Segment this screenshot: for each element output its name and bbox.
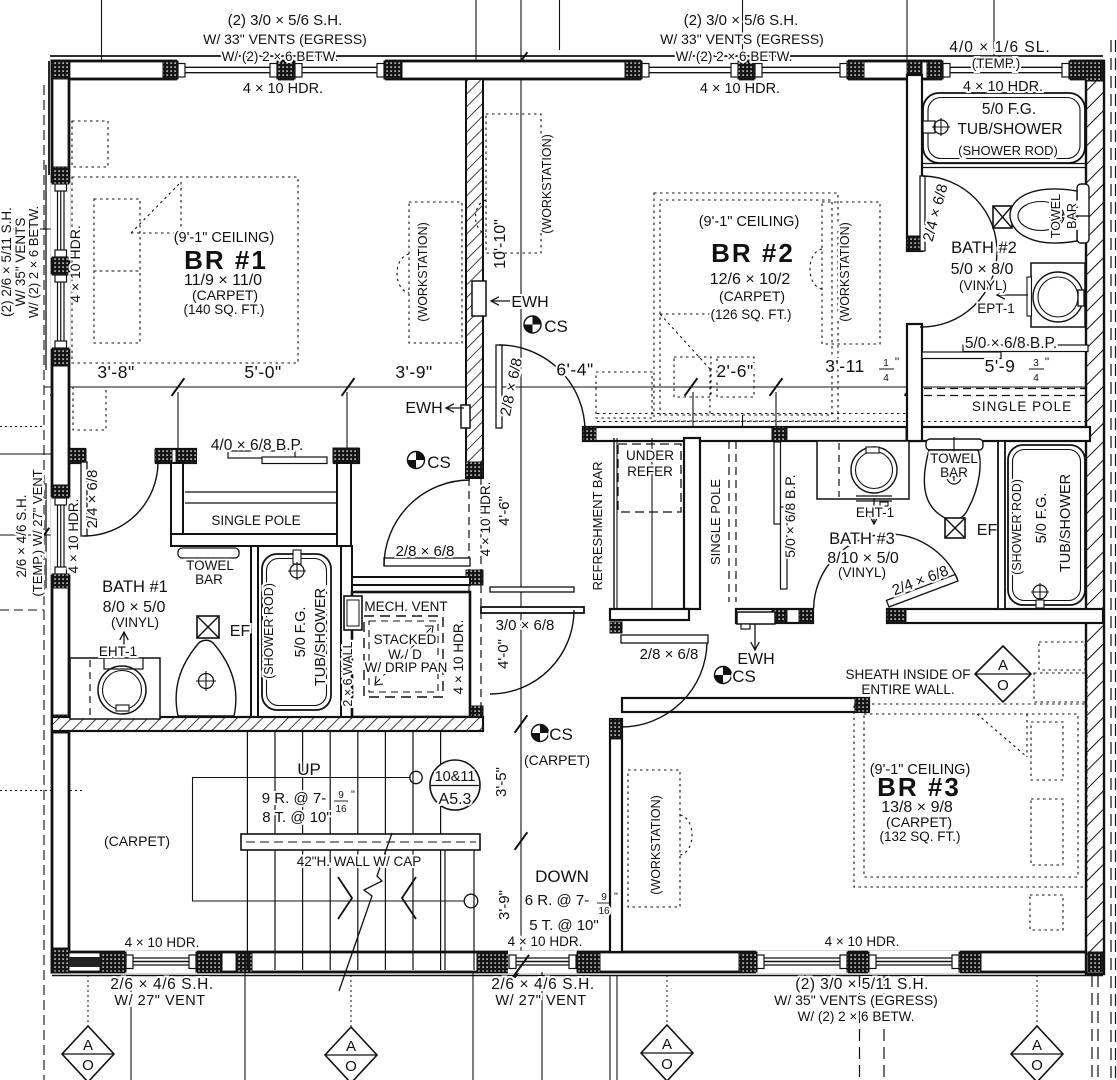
jamb block	[69, 449, 86, 463]
block below	[610, 622, 622, 633]
BR#1 closet south wall	[171, 534, 351, 546]
extension line x=693	[692, 392, 694, 428]
svg-text:(CARPET): (CARPET)	[886, 814, 952, 830]
svg-text:1: 1	[883, 358, 889, 369]
stair dimension line upper with donut	[192, 777, 410, 779]
main vertical dimension line x=521	[520, 0, 522, 969]
svg-text:(WORKSTATION): (WORKSTATION)	[540, 134, 554, 234]
svg-text:2/4 × 6/8: 2/4 × 6/8	[84, 470, 101, 529]
bath#1 towel bar	[178, 548, 239, 558]
EWH unit on central wall right face	[472, 281, 486, 316]
BR#2 workstation chair bump	[810, 249, 822, 289]
svg-text:2/6 × 4/6 S.H.: 2/6 × 4/6 S.H.	[14, 495, 29, 578]
svg-text:UNDER: UNDER	[626, 448, 674, 463]
bath#3 tub faucet	[1033, 585, 1047, 599]
tick at bottom window x=521	[513, 955, 529, 977]
sink drain cross	[199, 674, 214, 689]
jamb block	[583, 427, 596, 441]
window BR#1 (2) 3/0x5/6 glazing left sash	[177, 59, 278, 82]
window jamb block	[52, 574, 69, 588]
svg-text:(SHOWER ROD): (SHOWER ROD)	[958, 143, 1058, 158]
top exterior wall	[52, 61, 1103, 79]
under refer dashed box	[618, 444, 681, 512]
left dotted line y=790	[0, 790, 85, 792]
svg-text:EF: EF	[230, 623, 251, 640]
svg-text:TUB/SHOWER: TUB/SHOWER	[1058, 474, 1074, 572]
stair dimension line lower with donut	[192, 900, 464, 902]
svg-text:12/6 × 10/2: 12/6 × 10/2	[710, 271, 791, 288]
left exterior wall	[52, 61, 69, 972]
left dotted line y=426	[0, 426, 42, 428]
door 2/4x6/8 bath#3: swing arc	[814, 534, 886, 608]
door 2/4x6/8 bath#3: leaf	[886, 574, 958, 607]
jamb block	[887, 609, 906, 623]
svg-text:6'-4": 6'-4"	[556, 360, 593, 380]
svg-text:2/6 × 4/6 S.H.: 2/6 × 4/6 S.H.	[110, 976, 214, 993]
svg-text:5/0 F.G.: 5/0 F.G.	[293, 607, 309, 658]
dotted leader	[350, 975, 352, 1027]
left wall block at south wall junction	[52, 715, 69, 733]
window jamb block	[196, 952, 222, 972]
svg-text:": "	[1045, 355, 1049, 369]
svg-text:(WORKSTATION): (WORKSTATION)	[838, 222, 852, 322]
svg-text:4'-0": 4'-0"	[495, 639, 512, 669]
exhaust fan EF bath#1	[197, 616, 219, 638]
svg-text:4 × 10 HDR.: 4 × 10 HDR.	[508, 934, 583, 949]
BR#1 dotted rect below bed	[73, 387, 106, 430]
jamb block	[906, 427, 922, 441]
bath#3 south wall center segment	[736, 609, 813, 623]
bottom window 2/6x4/6 left glazing	[125, 951, 197, 974]
roof overhang line above top wall	[50, 55, 1103, 57]
door 3/0x6/8 hall: leaf	[490, 587, 574, 592]
EWH label hall with down arrow	[754, 624, 756, 650]
bath#3 tub	[1008, 445, 1085, 605]
svg-text:5/0 × 8/0: 5/0 × 8/0	[951, 261, 1014, 278]
svg-text:2/6 × 4/6 S.H.: 2/6 × 4/6 S.H.	[491, 976, 595, 993]
svg-text:5'-0": 5'-0"	[244, 362, 281, 382]
bath#3 tub walls	[998, 441, 1005, 609]
jamb blocks at closet	[155, 449, 172, 463]
bath#1 tub west wall	[251, 546, 258, 719]
svg-text:CS: CS	[544, 317, 568, 336]
2x6 wall tub/mech	[341, 546, 352, 719]
bottom-right corner block	[1088, 952, 1103, 972]
window BR#2 glazing left sash	[641, 59, 739, 82]
exhaust fan EF bath#3	[945, 518, 965, 538]
dimension tick x=178 on y=387	[172, 378, 185, 396]
dashed lines below BR#3 window	[859, 975, 861, 1080]
svg-text:5/0 × 6/8 B.P.: 5/0 × 6/8 B.P.	[782, 474, 798, 557]
svg-text:9: 9	[601, 892, 607, 903]
svg-text:5'-9: 5'-9	[985, 356, 1016, 376]
BR#2 bed dotted outer	[654, 193, 838, 421]
svg-text:(2) 3/0 × 5/11 S.H.: (2) 3/0 × 5/11 S.H.	[795, 976, 929, 993]
dimension tick x=348 on y=387	[342, 378, 355, 396]
svg-text:BATH #2: BATH #2	[951, 239, 1017, 257]
window jamb block	[927, 61, 943, 79]
svg-text:2'-6": 2'-6"	[716, 361, 753, 381]
svg-text:W/ (2) 2 × 6 BETW.: W/ (2) 2 × 6 BETW.	[222, 49, 339, 64]
window mullion block	[277, 61, 295, 79]
svg-text:EF: EF	[977, 522, 998, 539]
bottom window (2)3/0x5/11 left sash	[756, 951, 848, 974]
svg-text:BATH #1: BATH #1	[102, 578, 168, 596]
door 2/8x6/8 BR#3: swing arc	[621, 643, 707, 727]
svg-text:O: O	[345, 1058, 357, 1075]
bath#2 bypass door panel 2	[922, 352, 1001, 359]
svg-text:4 × 10 HDR.: 4 × 10 HDR.	[700, 81, 780, 97]
block east of bypass	[333, 448, 359, 463]
top-left corner block	[52, 61, 69, 79]
dimension tick x=776 on y=387	[770, 378, 783, 396]
BR#1 closet west wall	[171, 463, 183, 546]
window mullion block	[52, 257, 69, 275]
svg-text:TUB/SHOWER: TUB/SHOWER	[957, 121, 1062, 138]
svg-text:(CARPET): (CARPET)	[719, 288, 785, 304]
svg-text:2 × 6 WALL: 2 × 6 WALL	[341, 641, 355, 706]
ticks on vertical dim line x=521	[515, 52, 528, 70]
svg-text:8 T. @ 10": 8 T. @ 10"	[262, 809, 331, 826]
svg-text:(TEMP.) W/ 27" VENT: (TEMP.) W/ 27" VENT	[30, 469, 45, 596]
svg-text:REFER: REFER	[627, 464, 673, 479]
bypass opening white-out	[197, 447, 333, 465]
bypass door panel 2	[262, 457, 327, 464]
svg-text:": "	[614, 891, 618, 903]
party wall dashed lines right edge	[1110, 40, 1112, 1080]
svg-text:4: 4	[883, 373, 889, 384]
bath#1 tub	[262, 554, 331, 710]
door 2/8x6/8 BR#3: leaf	[621, 635, 708, 643]
stair riser lines	[246, 731, 248, 970]
svg-text:(2) 2/6 × 5/11 S.H.: (2) 2/6 × 5/11 S.H.	[0, 207, 14, 317]
svg-text:4 × 10 HDR.: 4 × 10 HDR.	[963, 79, 1043, 95]
header dashed lines over BR#1 door opening	[468, 478, 470, 570]
svg-text:4'-6": 4'-6"	[496, 496, 513, 526]
svg-text:4 × 10 HDR.: 4 × 10 HDR.	[66, 499, 81, 574]
bath#2 bypass door panel 1	[963, 345, 1088, 352]
bath#2 west wall upper	[907, 75, 922, 251]
bath#1 pedestal sink	[176, 640, 236, 716]
svg-text:(VINYL): (VINYL)	[111, 615, 159, 630]
svg-text:": "	[895, 355, 899, 369]
right exterior wall (sheathed/hatched)	[1086, 61, 1104, 974]
extension line x=776	[775, 392, 777, 428]
jamb block	[907, 236, 922, 251]
svg-text:42"H. WALL W/ CAP: 42"H. WALL W/ CAP	[297, 854, 422, 869]
bath#2 toilet bowl	[1010, 189, 1077, 243]
jamb block	[772, 609, 787, 623]
svg-text:4: 4	[1033, 373, 1039, 384]
svg-text:W/ DRIP PAN: W/ DRIP PAN	[365, 660, 448, 675]
svg-text:(CARPET): (CARPET)	[192, 287, 258, 303]
svg-text:(2) 3/0 × 5/6 S.H.: (2) 3/0 × 5/6 S.H.	[228, 12, 343, 29]
svg-text:9 R. @ 7-: 9 R. @ 7-	[262, 790, 326, 807]
svg-text:(WORKSTATION): (WORKSTATION)	[649, 795, 663, 895]
dimension tick x=691 on y=387	[685, 378, 698, 396]
dotted leader	[666, 975, 668, 1025]
svg-text:4 × 10 HDR.: 4 × 10 HDR.	[478, 482, 493, 557]
CS symbol vestibule	[408, 452, 425, 469]
window jamb block	[625, 61, 642, 79]
section marker circle 10&11/A5.3	[430, 760, 480, 810]
svg-text:O: O	[82, 1057, 94, 1074]
svg-text:CS: CS	[549, 725, 573, 744]
bath#3 toilet tank	[926, 439, 983, 450]
window jamb block	[959, 952, 981, 972]
door 2/8x6/8 BR#2: swing arc	[499, 345, 585, 431]
left wall sill trim lower	[45, 483, 47, 590]
svg-text:W/ (2) 2 × 6 BETW.: W/ (2) 2 × 6 BETW.	[26, 206, 41, 318]
svg-text:O: O	[1031, 1057, 1043, 1074]
left wall window 2/6x4/6 glazing	[51, 497, 71, 575]
svg-text:BR #3: BR #3	[877, 772, 961, 802]
svg-text:3'-9": 3'-9"	[395, 362, 432, 382]
EWH unit on wall	[737, 612, 775, 624]
extension line x=347 to closet corner	[346, 392, 348, 449]
dimension tick x=57 on y=387	[51, 378, 64, 396]
svg-text:4/0 × 1/6 SL.: 4/0 × 1/6 SL.	[949, 39, 1050, 56]
down-run riser lines	[444, 848, 446, 970]
svg-text:A: A	[346, 1038, 356, 1055]
svg-text:TOWEL: TOWEL	[186, 558, 234, 573]
stacked W/D diagonal arrow	[375, 627, 432, 684]
bath#3 heater cabinet EHT-1	[817, 441, 909, 499]
shower rod line bath#2	[922, 163, 1085, 165]
svg-text:UP: UP	[297, 760, 321, 779]
svg-text:(2) 3/0 × 5/6 S.H.: (2) 3/0 × 5/6 S.H.	[684, 12, 799, 29]
left corner exterior trim	[48, 61, 50, 175]
mech closet walls	[352, 592, 470, 717]
window BR#2 glazing right sash	[754, 59, 848, 82]
jamb block	[610, 719, 622, 739]
south hatched wall (bath#1/stair)	[52, 717, 483, 731]
svg-text:5/0 F.G.: 5/0 F.G.	[1034, 493, 1050, 544]
bottom-left corner block	[52, 948, 69, 972]
BR#3 north wall	[622, 698, 869, 712]
svg-text:EWH: EWH	[737, 651, 774, 668]
EWH unit on central wall left face	[461, 405, 470, 428]
BR#1 blanket fold	[131, 182, 181, 233]
svg-text:A: A	[1032, 1037, 1042, 1054]
stair direction chevron right	[338, 877, 352, 919]
CS symbol stair	[532, 725, 549, 742]
block at central wall bottom	[466, 462, 483, 478]
42in half wall with cap	[241, 834, 480, 850]
grid line x=476	[475, 0, 477, 78]
svg-text:SINGLE POLE: SINGLE POLE	[972, 399, 1072, 414]
door 2/4x6/8 bath#2: swing arc (180deg)	[920, 176, 997, 327]
svg-text:TOWEL: TOWEL	[930, 451, 978, 466]
BR#1 dresser dotted	[72, 121, 108, 167]
vestibule south wall	[352, 577, 470, 585]
window jamb block	[52, 485, 69, 498]
shear wall marker diamond bottom 3	[641, 1025, 693, 1080]
bath#1 tub faucet	[293, 550, 301, 564]
svg-text:(VINYL): (VINYL)	[959, 278, 1007, 293]
refreshment counter edge lines	[613, 438, 615, 609]
svg-text:A: A	[998, 657, 1008, 674]
EPT-1 label with arrow	[997, 294, 1028, 296]
svg-text:10&11: 10&11	[435, 769, 476, 785]
exhaust fan EF bath#2	[993, 206, 1012, 228]
door 3/0x6/8 hall: swing arc	[490, 610, 574, 694]
hall closet single pole dashed lines	[728, 441, 730, 602]
svg-text:O: O	[997, 677, 1009, 694]
closet shelf lines	[185, 491, 337, 493]
window jamb block	[236, 952, 252, 972]
stair bottom blocks	[477, 952, 494, 972]
BR#1 closet east wall	[337, 463, 351, 546]
stacked washer/dryer dashed box	[364, 616, 443, 697]
left wall window lower sash	[51, 274, 71, 349]
svg-text:CS: CS	[732, 667, 756, 686]
jamb block	[799, 609, 813, 623]
bath#2 closet single pole dashed lines	[924, 388, 1086, 390]
svg-text:3'-11: 3'-11	[825, 356, 865, 376]
svg-text:(140 SQ. FT.): (140 SQ. FT.)	[183, 302, 264, 317]
svg-text:": "	[351, 789, 355, 801]
bath#1 heater tray	[104, 658, 143, 669]
svg-text:10'-10": 10'-10"	[492, 219, 509, 269]
left extension line y=229	[0, 228, 58, 230]
svg-text:REFRESHMENT BAR: REFRESHMENT BAR	[590, 461, 605, 590]
svg-text:(TEMP.): (TEMP.)	[972, 56, 1021, 71]
bath#2 west wall lower	[907, 324, 922, 441]
svg-text:3'-9": 3'-9"	[496, 890, 513, 920]
svg-text:A: A	[662, 1036, 672, 1053]
svg-text:(SHOWER ROD): (SHOWER ROD)	[1010, 479, 1024, 575]
svg-text:3'-5": 3'-5"	[493, 767, 510, 797]
svg-text:EWH: EWH	[511, 294, 548, 311]
svg-text:CS: CS	[427, 453, 451, 472]
svg-text:5/0 F.G.: 5/0 F.G.	[982, 101, 1036, 118]
bottom window right sash	[868, 951, 960, 974]
BR#3 workstation chair bump	[680, 815, 692, 855]
svg-text:(9'-1" CEILING): (9'-1" CEILING)	[174, 230, 275, 246]
svg-text:EPT-1: EPT-1	[977, 301, 1015, 316]
left wall sill trim upper	[45, 165, 47, 370]
left witness line y=535	[0, 534, 56, 536]
svg-text:4 × 10 HDR.: 4 × 10 HDR.	[67, 225, 83, 302]
svg-text:BR #1: BR #1	[184, 245, 268, 275]
window jamb block	[577, 952, 600, 972]
hall south wall with 3/0 opening	[481, 607, 584, 613]
svg-text:4 × 10 HDR.: 4 × 10 HDR.	[825, 934, 900, 949]
svg-text:9: 9	[338, 790, 344, 801]
dotted leader	[87, 975, 89, 1026]
svg-text:W/ 33" VENTS (EGRESS): W/ 33" VENTS (EGRESS)	[660, 31, 824, 47]
BR#3 workstation dashed	[628, 770, 680, 907]
left property dashed line	[43, 85, 45, 1080]
svg-text:(CARPET): (CARPET)	[104, 833, 170, 849]
svg-text:(WORKSTATION): (WORKSTATION)	[416, 222, 430, 322]
svg-text:3: 3	[1033, 358, 1039, 369]
bath#3 south wall east segment	[887, 609, 1103, 623]
svg-text:A5.3: A5.3	[439, 791, 472, 808]
window mullion block	[738, 61, 755, 79]
window jamb block	[52, 167, 69, 184]
grid line x=559	[559, 0, 561, 50]
block at stair opening south	[466, 706, 483, 731]
svg-text:MECH. VENT: MECH. VENT	[364, 599, 447, 614]
svg-text:5 T. @ 10": 5 T. @ 10"	[529, 917, 598, 934]
BR#2 pillow left	[674, 357, 711, 397]
svg-text:16: 16	[598, 906, 610, 917]
header dashed lines over stair opening 4'-0	[468, 585, 470, 708]
extension line x=742 mullion	[742, 415, 744, 428]
svg-text:4 × 10 HDR.: 4 × 10 HDR.	[451, 620, 466, 695]
window jamb block	[739, 952, 757, 972]
EHT-1 label with down arrow bath#3	[873, 498, 875, 524]
svg-text:W/ 27" VENT: W/ 27" VENT	[114, 993, 205, 1009]
svg-text:(CARPET): (CARPET)	[524, 752, 590, 768]
door 2/4x6/8 bath#1: leaf	[81, 462, 87, 536]
bypass door panel 1	[228, 451, 295, 458]
svg-text:EWH: EWH	[405, 400, 442, 417]
lines below bottom wall	[130, 980, 132, 1080]
CS symbol hall	[524, 316, 541, 333]
BR#2 pillow right	[717, 357, 754, 397]
svg-text:DOWN: DOWN	[535, 867, 589, 886]
svg-text:EHT-1: EHT-1	[856, 505, 894, 520]
BR#1 pillow lower	[94, 271, 140, 343]
left wall window (2)2/6x5/11 upper sash	[51, 183, 71, 258]
block between openings	[466, 570, 483, 585]
shear wall marker diamond bottom 4	[1011, 1026, 1063, 1080]
stair direction chevron left	[402, 877, 416, 919]
svg-text:EHT-1: EHT-1	[99, 644, 137, 659]
svg-text:BATH #3: BATH #3	[829, 530, 895, 548]
svg-text:W/ (2) 2 × 6 BETW.: W/ (2) 2 × 6 BETW.	[798, 1009, 915, 1024]
svg-text:W/ 27" VENT: W/ 27" VENT	[495, 993, 586, 1009]
svg-text:O: O	[661, 1056, 673, 1073]
door 2/8x6/8 BR#2: leaf	[496, 345, 502, 428]
hall workstation dashed rect	[486, 114, 541, 253]
svg-text:(9'-1" CEILING): (9'-1" CEILING)	[699, 214, 800, 230]
svg-text:6 R. @ 7-: 6 R. @ 7-	[525, 892, 589, 909]
svg-text:W/ 33" VENTS (EGRESS): W/ 33" VENTS (EGRESS)	[203, 31, 367, 47]
bath#1 heater cabinet EHT-1	[70, 658, 160, 719]
window mullion block	[847, 952, 869, 972]
bath#2 tub faucet	[923, 121, 935, 133]
bath#3 toilet bowl	[924, 450, 980, 520]
jamb block	[772, 427, 787, 441]
shear wall marker diamond bottom 1	[62, 1026, 114, 1080]
window bath#2 4/0x1/6 SL glazing	[942, 59, 1070, 82]
svg-text:(SHOWER ROD): (SHOWER ROD)	[262, 583, 276, 679]
door 2/8x6/8 BR#1: leaf	[384, 558, 470, 566]
svg-text:5/0 × 6/8 B.P.: 5/0 × 6/8 B.P.	[965, 335, 1057, 352]
svg-text:4 × 10 HDR.: 4 × 10 HDR.	[125, 935, 200, 950]
BR#3 dotted dressers in alcove	[1039, 642, 1085, 670]
svg-text:TUB/SHOWER: TUB/SHOWER	[313, 588, 329, 686]
stair dimension vertical line	[192, 778, 194, 902]
svg-text:3'-8": 3'-8"	[97, 362, 134, 382]
svg-text:SINGLE POLE: SINGLE POLE	[211, 513, 300, 528]
extension line x=178	[177, 392, 179, 449]
BR#3 blanket fold	[977, 714, 1027, 757]
BR#3 bed dotted outer	[854, 704, 1087, 887]
jamb block	[907, 324, 922, 340]
window centerline x=742	[742, 0, 744, 64]
svg-text:3/0 × 6/8: 3/0 × 6/8	[496, 617, 555, 634]
BR#1 pillow upper	[94, 199, 140, 271]
BR#2 blanket fold	[660, 314, 710, 369]
EHT-1 label with up arrow	[123, 632, 125, 656]
BR#3 west wall	[610, 719, 622, 952]
bath#1 door opening white-out	[86, 447, 155, 465]
